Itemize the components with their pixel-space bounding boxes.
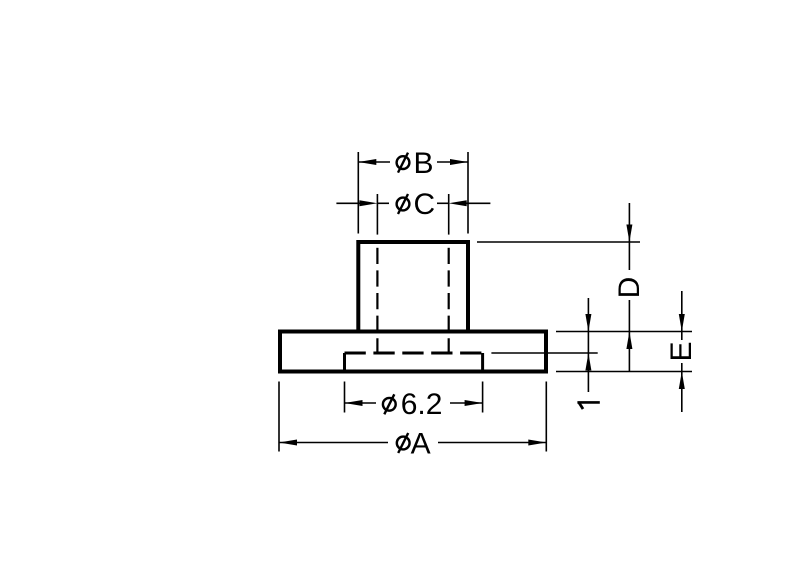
dimension D top extension line (boss top level): [477, 241, 640, 243]
dimension B arrows: [358, 159, 468, 165]
dimension A line: [279, 442, 546, 444]
recess (counterbore) left wall: [343, 353, 346, 372]
hidden hole line right: [448, 248, 450, 353]
dimension E arrows: [679, 314, 685, 389]
hidden hole line left: [376, 248, 378, 353]
boss (neck) outline: [358, 242, 468, 332]
recess (counterbore) right wall: [481, 353, 484, 372]
recess level extension line (for dim 1): [491, 352, 597, 354]
dimension E label: [665, 341, 698, 361]
dimension D line: [628, 203, 630, 371]
dimension B label: [397, 147, 434, 180]
dimension 6.2 line: [345, 402, 483, 404]
dimension 1 label: [577, 402, 599, 409]
recess top edge (dashed): [345, 352, 483, 355]
dimension 6.2 extension lines: [345, 382, 483, 413]
flange top extension line (shared by D, E, 1): [556, 331, 692, 333]
dimension B extension lines: [358, 152, 468, 234]
svg-text:6.2: 6.2: [401, 388, 443, 421]
dimension C extension lines: [377, 194, 448, 235]
dimension 1 arrows: [585, 314, 591, 371]
dimension D arrows: [626, 225, 632, 350]
svg-text:A: A: [411, 427, 431, 460]
dimension 6.2 arrows: [345, 400, 483, 406]
dimension C arrows: [359, 200, 466, 206]
dimension A label: [397, 427, 431, 460]
dimension D label: [613, 277, 646, 299]
dimension B line: [358, 161, 468, 163]
dimension C line: [336, 202, 490, 204]
svg-text:E: E: [665, 341, 698, 361]
dimension A extension lines: [279, 382, 546, 452]
dimension E line: [681, 291, 683, 412]
dimension 6.2 label: [383, 388, 443, 421]
svg-text:D: D: [613, 277, 646, 299]
flange outline: [280, 332, 546, 372]
flange bottom extension line (shared by E): [556, 371, 692, 373]
dimension C label: [397, 188, 436, 221]
dimension 1 line: [587, 298, 589, 392]
svg-text:C: C: [414, 188, 436, 221]
svg-text:B: B: [414, 147, 434, 180]
dimension A arrows: [279, 440, 546, 446]
